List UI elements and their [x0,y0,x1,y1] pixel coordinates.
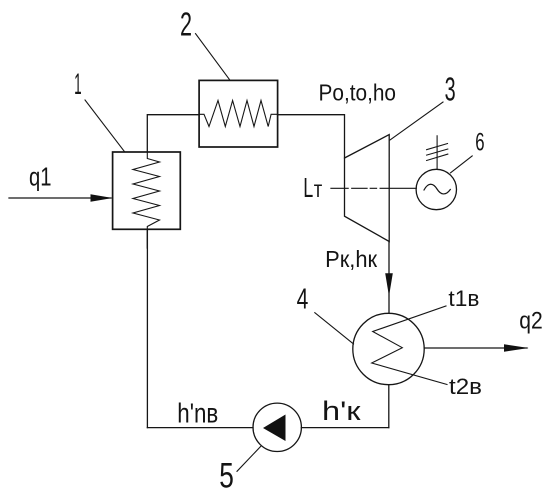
svg-text:t1в: t1в [448,286,479,311]
boiler 1 coil [133,152,160,229]
wire boiler coil outlet stub [146,229,148,248]
generator 6 circle [416,169,456,209]
leader for label 3 [390,102,443,140]
wire feedwater riser [146,229,148,427]
svg-text:q1: q1 [29,162,52,192]
wire turbine exhaust to condenser [388,242,390,314]
svg-text:3: 3 [445,70,456,107]
svg-text:h'к: h'к [322,396,361,426]
wire boiler top to superheater [147,115,199,152]
turbine 3 body [345,135,390,242]
condenser 4 circle [353,313,424,384]
arrow q1 head [91,194,113,201]
leader for label 1 [85,100,124,152]
svg-text:t2в: t2в [449,374,482,399]
arrow q2 head [504,344,529,352]
generator top lead [436,136,438,169]
svg-text:1: 1 [74,68,82,101]
svg-text:L: L [303,172,313,203]
superheater 2 body [199,80,278,147]
leader for label 5 [237,446,261,471]
wire pump to feed line [147,427,253,429]
wire condensate line to pump [301,427,388,429]
svg-text:h'nв: h'nв [177,398,218,429]
svg-text:5: 5 [219,457,234,496]
wire q1 inlet line [9,197,111,199]
generator hatch mark 2 [427,149,448,155]
svg-text:Po,to,ho: Po,to,ho [319,80,397,106]
arrow Pk head [385,273,393,296]
generator sine symbol [424,184,450,194]
leader for label 4 [315,313,354,344]
wire q2 outlet [424,347,527,349]
generator hatch mark 1 [427,144,448,150]
svg-text:2: 2 [180,6,192,43]
wire superheater to turbine [278,115,345,158]
boiler 1 body [113,152,181,229]
wire condenser bottom [388,385,390,428]
svg-text:т: т [314,176,323,202]
shaft dash-dot line [331,187,416,189]
condenser water coil with t1v inlet leader [372,306,447,385]
svg-text:Pк,hк: Pк,hк [325,246,378,272]
leader for label 6 [451,156,473,173]
svg-text:6: 6 [475,129,484,157]
pump 5 circle [253,403,301,451]
svg-text:4: 4 [297,283,309,315]
svg-text:q2: q2 [519,308,543,335]
leader for label 2 [196,34,231,81]
pump impeller triangle [263,415,286,442]
superheater 2 coil [199,101,278,127]
generator hatch mark 3 [427,154,448,160]
